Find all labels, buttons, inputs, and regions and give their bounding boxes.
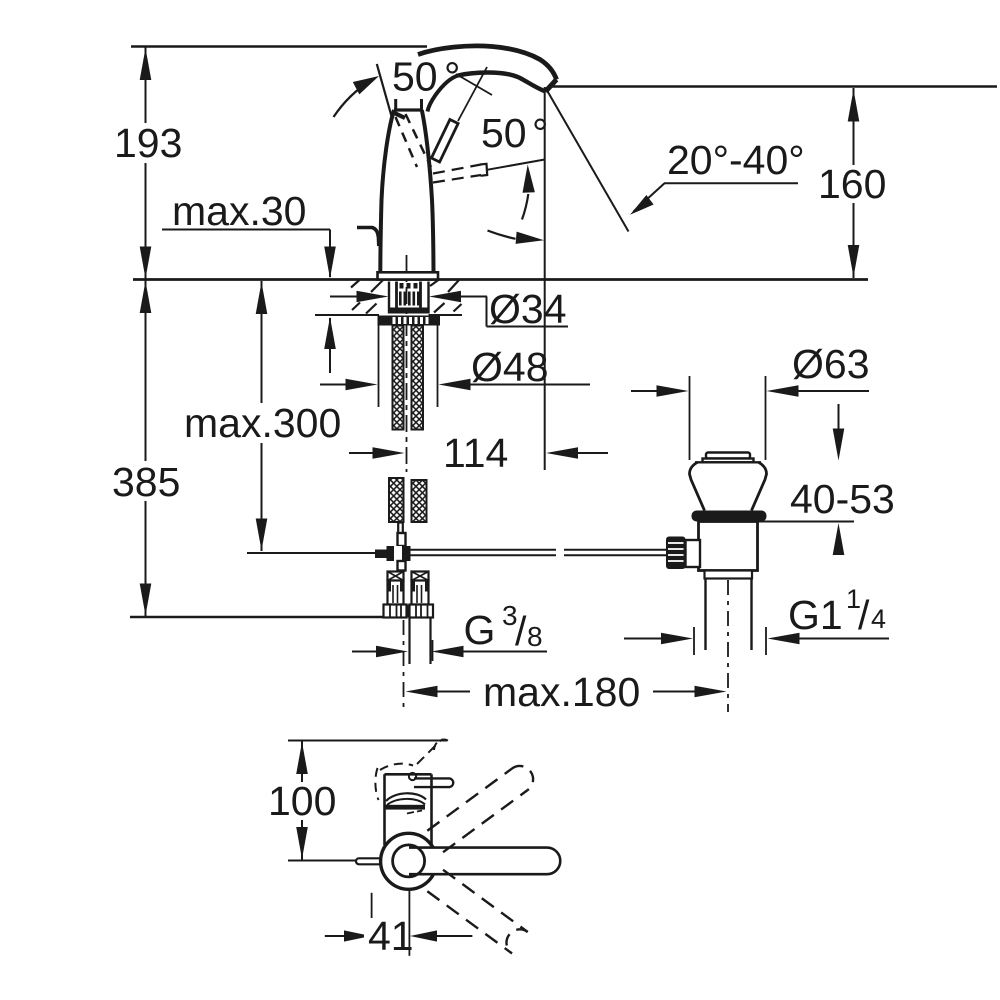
svg-text:50: 50 xyxy=(392,54,438,100)
svg-text:°: ° xyxy=(444,54,460,100)
svg-text:100: 100 xyxy=(268,778,336,824)
svg-text:50: 50 xyxy=(481,110,527,156)
svg-text:114: 114 xyxy=(443,430,508,476)
svg-text:40-53: 40-53 xyxy=(790,476,895,522)
svg-text:193: 193 xyxy=(114,120,182,166)
svg-text:G: G xyxy=(464,607,496,653)
svg-text:Ø48: Ø48 xyxy=(471,344,549,390)
svg-text:max.180: max.180 xyxy=(483,669,640,715)
svg-text:8: 8 xyxy=(527,621,543,652)
svg-text:385: 385 xyxy=(112,459,180,505)
svg-text:Ø63: Ø63 xyxy=(792,341,870,387)
svg-text:41: 41 xyxy=(368,913,414,959)
svg-text:G1: G1 xyxy=(788,592,843,638)
svg-text:20°-40°: 20°-40° xyxy=(667,137,805,183)
svg-text:max.300: max.300 xyxy=(184,400,341,446)
svg-text:max.30: max.30 xyxy=(172,188,306,234)
svg-text:4: 4 xyxy=(871,604,886,634)
svg-text:Ø34: Ø34 xyxy=(489,286,567,332)
svg-text:160: 160 xyxy=(818,161,886,207)
svg-text:°: ° xyxy=(532,110,548,156)
svg-text:/: / xyxy=(858,592,870,638)
svg-text:/: / xyxy=(515,608,527,654)
